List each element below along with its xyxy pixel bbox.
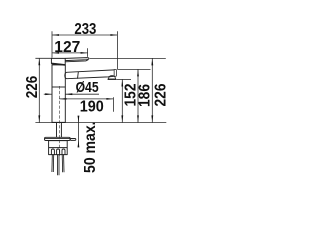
- ext line top (lever top level y=58.3) left segment: [35, 57, 52, 59]
- left 226 arrows: [38, 58, 40, 65]
- 233 arrows: [52, 34, 59, 36]
- svg-text:190: 190: [80, 99, 104, 116]
- 152 arrows: [121, 79, 123, 86]
- spout: [65, 70, 114, 79]
- D45 arrows (outside, pointing inward): [45, 93, 52, 95]
- 190 arrows: [59, 98, 66, 100]
- ext line top right segment: [90, 57, 166, 59]
- dim line 186: [137, 69, 139, 122]
- 186 arrows: [137, 69, 139, 76]
- hose slots: [51, 149, 54, 155]
- dim line 190: [59, 98, 113, 100]
- lever mount block: [51, 58, 65, 64]
- svg-text:226: 226: [24, 76, 41, 99]
- counter line (mounting plane): [35, 122, 166, 124]
- svg-text:186: 186: [137, 84, 154, 107]
- pin right: [70, 139, 76, 141]
- flange washer: [45, 137, 71, 140]
- dim line D45 left seg: [44, 93, 52, 95]
- dashed centerline of faucet body: [58, 86, 60, 156]
- body cylinder: [52, 65, 65, 123]
- ext line for 152 (aerator level): [116, 78, 131, 80]
- 50max arrows (outside): [78, 116, 80, 123]
- thick joint under lever block: [51, 63, 65, 65]
- right 226 arrows: [151, 58, 153, 65]
- line across shank: [49, 147, 68, 149]
- dim line 127: [52, 52, 88, 54]
- dim line right 226: [151, 58, 153, 122]
- ext line left for 233/127: [51, 31, 53, 57]
- ext line right for 233 (spout tip): [116, 31, 118, 69]
- lever lower edge: [65, 60, 88, 62]
- spout joint line: [77, 72, 80, 79]
- aerator dome: [108, 76, 115, 80]
- dim line D45 right seg: [66, 93, 100, 95]
- svg-text:233: 233: [74, 21, 96, 38]
- ext line right for 127 (lever tip): [87, 48, 89, 57]
- svg-text:127: 127: [54, 39, 80, 56]
- ext line for 186 (spout top level): [117, 68, 150, 70]
- aerator base: [108, 78, 117, 80]
- svg-text:Ø45: Ø45: [76, 79, 99, 96]
- 127 arrows: [52, 52, 59, 54]
- hoses: [52, 155, 64, 176]
- stem below counter: [57, 123, 62, 137]
- shank / nut: [49, 141, 68, 155]
- dim line 152: [121, 79, 123, 122]
- spout end cap: [114, 70, 116, 77]
- arrowheads: [38, 34, 153, 147]
- collar line on body: [52, 86, 65, 88]
- dim line left 226: [38, 58, 40, 122]
- dim line 50max: [77, 116, 79, 147]
- dim line 233: [52, 34, 117, 36]
- ext line stub below 190: [112, 97, 114, 111]
- svg-text:226: 226: [153, 83, 170, 106]
- lever bar: [65, 58, 89, 61]
- svg-text:50 max.: 50 max.: [82, 121, 99, 173]
